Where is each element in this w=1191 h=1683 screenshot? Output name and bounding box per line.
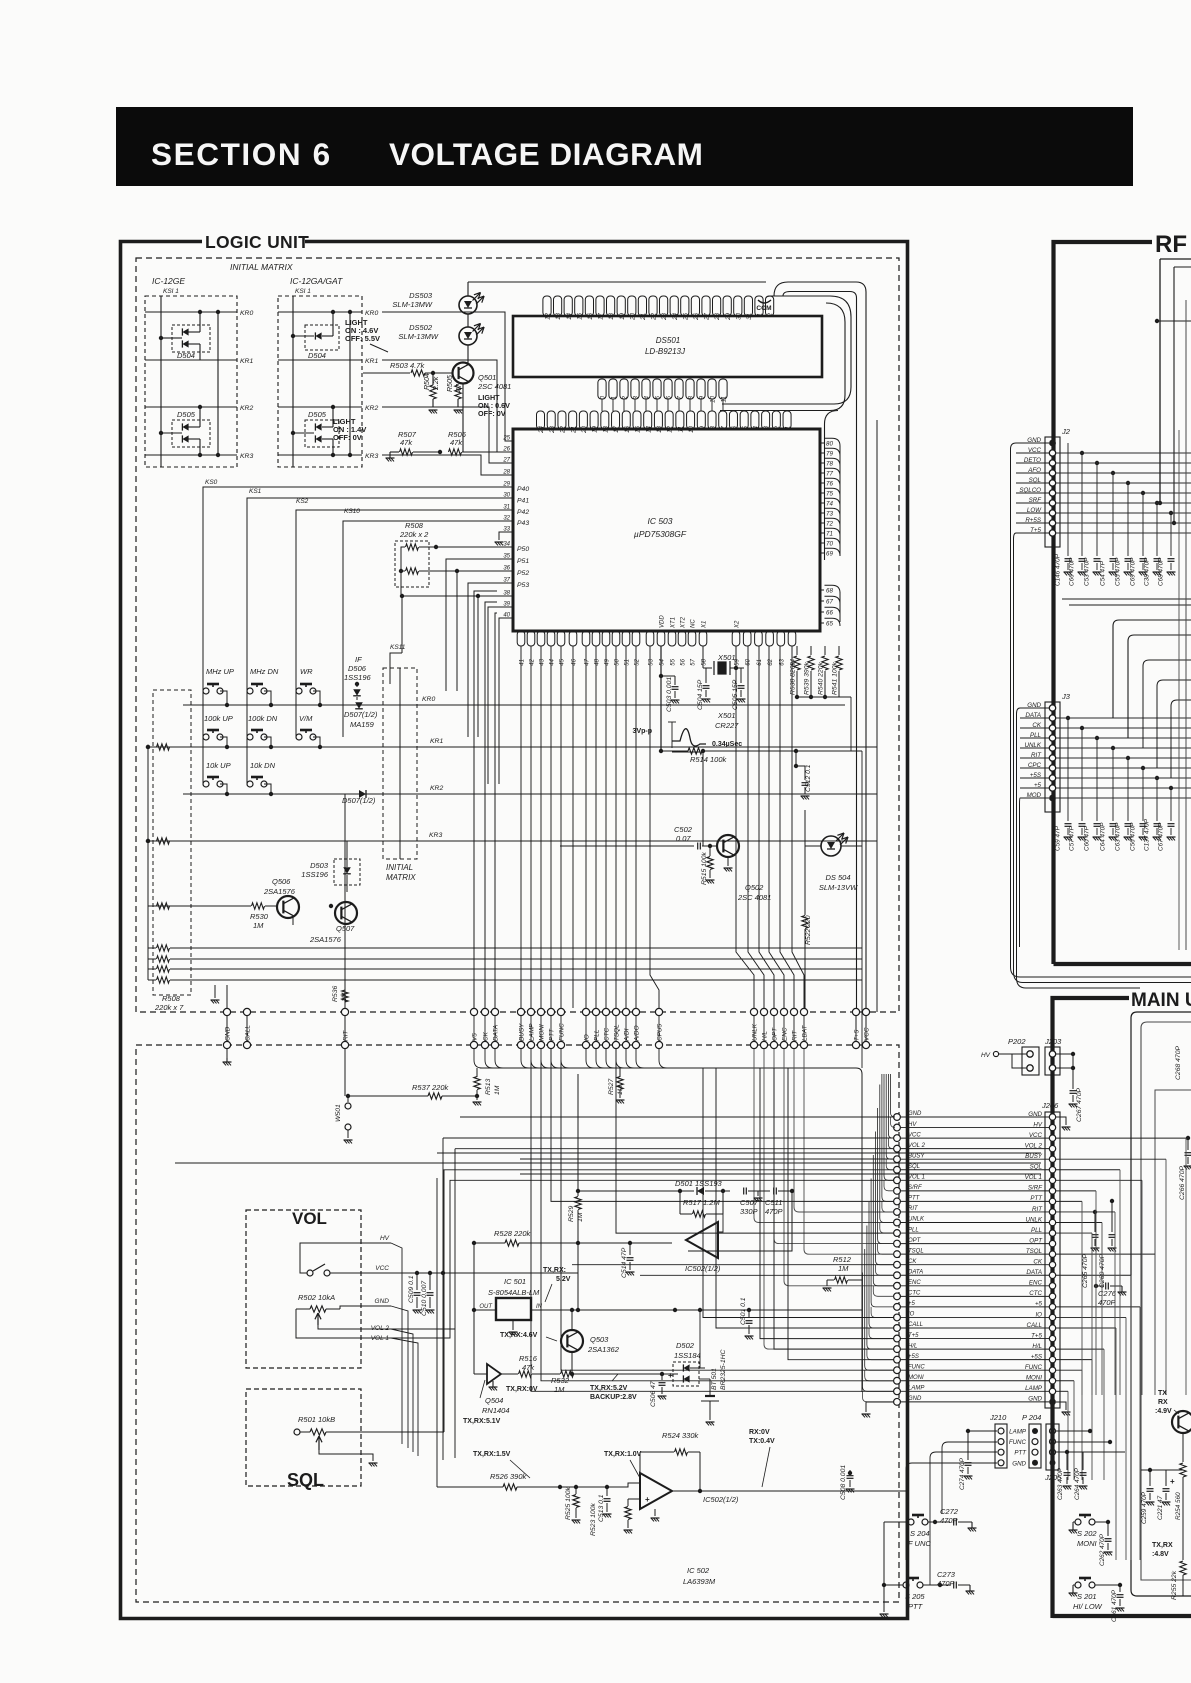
svg-text:FUNC: FUNC (908, 1364, 925, 1370)
svg-text:2: 2 (774, 425, 781, 430)
wire hooks IC503 pins 38-40 to V5 CK DATA columns (474, 591, 497, 1008)
svg-text:OFF: 5.5V: OFF: 5.5V (345, 334, 380, 343)
svg-text:INITIAL MATRIX: INITIAL MATRIX (230, 262, 293, 272)
svg-text:TX,RX:0V: TX,RX:0V (506, 1386, 538, 1393)
svg-text:76: 76 (826, 481, 833, 488)
battery BT501 BR2325-1HC (705, 1395, 715, 1397)
svg-text:69: 69 (826, 551, 833, 558)
svg-text:LA6393M: LA6393M (683, 1577, 716, 1586)
title bar SECTION 6 VOLTAGE DIAGRAM (116, 107, 1133, 186)
svg-text:KS2: KS2 (296, 498, 309, 505)
svg-text:KR0: KR0 (240, 310, 253, 317)
COM bracket (758, 300, 771, 303)
ground Q502 emitter (727, 857, 729, 866)
svg-text:NC: NC (691, 619, 697, 628)
svg-text:C265 470P: C265 470P (1082, 1254, 1089, 1288)
svg-text:2SA1362: 2SA1362 (587, 1345, 620, 1354)
svg-text:1: 1 (757, 313, 764, 316)
svg-text:X501: X501 (717, 711, 736, 720)
svg-text:220k x 2: 220k x 2 (399, 530, 429, 539)
svg-text:2SA1576: 2SA1576 (263, 887, 296, 896)
svg-text:V5: V5 (472, 1033, 479, 1041)
svg-text:R504: R504 (424, 373, 431, 390)
wire pin 34 P50 to R508 upper (436, 546, 513, 548)
microprocessor IC503 uPD75308GF (513, 429, 820, 631)
wires VOL rows to right (391, 1243, 402, 1444)
wire VCC row long (391, 1272, 578, 1274)
svg-text:P51: P51 (517, 558, 529, 565)
svg-text:R516: R516 (519, 1354, 538, 1363)
svg-text:22: 22 (651, 312, 658, 320)
svg-text:HV: HV (981, 1052, 991, 1059)
svg-text:PTT: PTT (908, 1602, 924, 1611)
wire hook fan rows to vertical bundle (891, 1074, 896, 1117)
svg-text:C64 470P: C64 470P (1100, 822, 1107, 851)
svg-text:HV: HV (380, 1235, 390, 1242)
svg-text:24: 24 (538, 425, 545, 433)
svg-text:10k DN: 10k DN (250, 761, 276, 770)
svg-text:77: 77 (826, 471, 833, 478)
svg-text:DS502: DS502 (409, 323, 433, 332)
svg-text:58: 58 (702, 658, 708, 665)
wire opamp2 output (672, 1490, 906, 1492)
svg-text:RN1404: RN1404 (482, 1406, 510, 1415)
LED DS504 SLM-13VW (821, 836, 841, 856)
wire T+5 H/L rows (760, 1068, 894, 1339)
svg-text:1SS196: 1SS196 (301, 870, 329, 879)
svg-text:+: + (668, 1371, 673, 1380)
svg-text:1: 1 (611, 396, 618, 399)
DS501 top pin tabs (543, 296, 551, 316)
wire KR0 matrix to pin 25 (382, 312, 513, 441)
svg-text:R514 100k: R514 100k (690, 755, 728, 764)
wire GND row top (460, 1116, 894, 1118)
svg-text:PLL: PLL (594, 1029, 601, 1041)
svg-text:13: 13 (656, 425, 663, 432)
capacitor C265 470P (1093, 1210, 1097, 1214)
svg-text:IC-12GA/GAT: IC-12GA/GAT (290, 276, 343, 286)
svg-text:MAIN U: MAIN U (1131, 990, 1191, 1011)
svg-text:C63 470P: C63 470P (1115, 822, 1122, 851)
svg-text:R539 390k: R539 390k (804, 662, 811, 695)
svg-text:1M: 1M (838, 1264, 849, 1273)
svg-text:CK: CK (483, 1031, 490, 1041)
svg-text:SLM-13MW: SLM-13MW (392, 300, 433, 309)
svg-text:P40: P40 (517, 486, 529, 493)
svg-text:50: 50 (615, 658, 621, 665)
svg-text:TX: TX (1158, 1390, 1167, 1397)
svg-text:F UNC: F UNC (908, 1539, 931, 1548)
vertical feed wires lower box (436, 1178, 438, 1487)
wire X2 to crystal (735, 646, 737, 668)
svg-text:220k x 7: 220k x 7 (154, 1003, 184, 1012)
RF interior nested corner wires to J3 caps (1113, 620, 1191, 718)
svg-text:R254 560: R254 560 (1175, 1492, 1182, 1520)
wire pin 37 P53 column (468, 583, 513, 737)
svg-text:KSI 1: KSI 1 (163, 288, 179, 295)
svg-text:D502: D502 (676, 1341, 695, 1350)
wires J210 left loop to switches (968, 1430, 997, 1432)
svg-text:D507(1/2): D507(1/2) (342, 796, 376, 805)
svg-text:23: 23 (549, 425, 556, 433)
J3 pin row wires extending right (1056, 717, 1191, 719)
wire Q506-Q507 (292, 917, 294, 925)
wire IO CALL rows (703, 1068, 894, 1318)
svg-text:21: 21 (570, 426, 577, 434)
svg-text:P52: P52 (517, 570, 529, 577)
svg-text:R536: R536 (332, 986, 339, 1002)
wire IN rail (577, 1243, 579, 1310)
svg-text:D507(1/2): D507(1/2) (344, 710, 378, 719)
svg-text:LAMP: LAMP (908, 1386, 924, 1392)
svg-text:R505: R505 (447, 375, 454, 392)
svg-text:C221 47: C221 47 (1157, 1495, 1164, 1520)
svg-text:47k: 47k (450, 438, 463, 447)
svg-text:MONI: MONI (908, 1375, 924, 1381)
wire bundle IC503 bottom pins 41-53 down to connector row (520, 646, 522, 1008)
svg-text:PTT: PTT (1014, 1450, 1027, 1457)
svg-text:48: 48 (595, 658, 601, 665)
wire row 1470 (1141, 1469, 1183, 1471)
wire C511 output loop (688, 1191, 792, 1251)
svg-text:HI/ LOW: HI/ LOW (1073, 1602, 1103, 1611)
svg-text:OFF: 0V: OFF: 0V (333, 433, 362, 442)
svg-text:R255 22k: R255 22k (1171, 1570, 1178, 1600)
svg-text:R523 100k: R523 100k (590, 1503, 597, 1536)
switch VOL (307, 1270, 313, 1276)
svg-text:C510 0.007: C510 0.007 (421, 1281, 428, 1316)
svg-text:RIT: RIT (908, 1206, 919, 1212)
wire Q503 emitter down (571, 1352, 573, 1374)
svg-text:RX: RX (1158, 1399, 1168, 1406)
wire pin 40 column (499, 618, 513, 784)
J2 bypass capacitors C146 C66 C53 C54 C55 C69 C38 C68 (1067, 443, 1069, 556)
svg-text::4.9V: :4.9V (1155, 1408, 1172, 1415)
svg-text:C137 470P: C137 470P (1144, 818, 1151, 851)
svg-text:7: 7 (677, 395, 684, 399)
svg-text:J203: J203 (1044, 1037, 1062, 1046)
svg-text:16: 16 (587, 312, 594, 319)
wire channel wrap around DS501 right side (722, 296, 851, 404)
svg-text:DS501: DS501 (656, 336, 680, 345)
svg-text:21: 21 (640, 313, 647, 321)
svg-text:CK: CK (908, 1259, 917, 1265)
ground symbol bottom left (214, 985, 216, 998)
svg-text:43: 43 (540, 658, 546, 665)
svg-text:100k DN: 100k DN (248, 714, 278, 723)
svg-text:LD-B9213J: LD-B9213J (645, 347, 686, 356)
wire rows bundle mid (616, 1049, 894, 1233)
svg-text:17: 17 (598, 312, 605, 319)
DS501 bottom pin tabs (598, 379, 606, 399)
wires above upper connector row (226, 985, 228, 1008)
capacitor C261 470P (1095, 1584, 1120, 1586)
svg-text:+: + (1170, 1477, 1175, 1486)
svg-text:H/L: H/L (908, 1343, 917, 1349)
svg-text:P42: P42 (517, 509, 529, 516)
svg-text:CALL: CALL (908, 1322, 923, 1328)
svg-text:20: 20 (581, 425, 588, 433)
svg-text:C268 470P: C268 470P (1175, 1046, 1182, 1080)
logic unit border (121, 242, 908, 1619)
svg-text:3: 3 (763, 425, 770, 429)
wire CK DATA rows (572, 1264, 894, 1266)
svg-text:KR0: KR0 (365, 310, 378, 317)
svg-text:C60 47P: C60 47P (1084, 825, 1091, 851)
svg-text:R515 100k: R515 100k (701, 852, 708, 885)
svg-text:VOL 2: VOL 2 (908, 1143, 926, 1149)
svg-text:78: 78 (826, 461, 833, 468)
svg-text:68: 68 (826, 588, 833, 595)
svg-text:C509 0.1: C509 0.1 (408, 1275, 415, 1303)
svg-text:X501: X501 (717, 653, 736, 662)
svg-text:µPD75308GF: µPD75308GF (634, 529, 687, 539)
diode pair D504 (IC-12GE) (172, 325, 210, 352)
svg-text:C507: C507 (740, 1198, 759, 1207)
capacitor C262 470P (1095, 1521, 1108, 1523)
svg-text:25: 25 (682, 312, 689, 320)
svg-text:UNLK: UNLK (752, 1023, 759, 1041)
svg-text:LOGIC UNIT: LOGIC UNIT (205, 232, 309, 252)
svg-text:CTC: CTC (908, 1291, 921, 1297)
svg-text:TX,RX:5.1V: TX,RX:5.1V (463, 1418, 501, 1425)
svg-text:WR: WR (300, 667, 313, 676)
lower row wires to right (191, 947, 862, 949)
svg-text:18: 18 (602, 425, 609, 432)
svg-text:MHz DN: MHz DN (250, 667, 279, 676)
resistor R522 220 (804, 846, 806, 915)
svg-text:19: 19 (619, 312, 626, 319)
diode D507(1/2) on KR2 (359, 790, 366, 798)
svg-text:0.07: 0.07 (676, 834, 691, 843)
svg-text:74: 74 (826, 501, 833, 508)
svg-text:MATRIX: MATRIX (386, 873, 416, 882)
svg-text:PTT: PTT (549, 1028, 556, 1041)
svg-text:R503 4.7k: R503 4.7k (390, 361, 425, 370)
svg-text:C54 47P: C54 47P (1100, 560, 1107, 586)
svg-text:20: 20 (629, 312, 636, 320)
wire bundle IC503 bottom pins 59-64 down to connector row (736, 646, 754, 1008)
svg-text:OFF: 0V: OFF: 0V (478, 409, 506, 418)
svg-text:330P: 330P (740, 1207, 758, 1216)
svg-text:57: 57 (691, 658, 697, 665)
svg-text:73: 73 (826, 511, 833, 518)
svg-text:VCC: VCC (908, 1132, 921, 1138)
svg-text:9: 9 (699, 425, 706, 429)
svg-text:RIT: RIT (792, 1030, 799, 1041)
svg-text:IC 502: IC 502 (687, 1566, 710, 1575)
svg-text:MONI: MONI (1077, 1539, 1097, 1548)
svg-text:2SC 4081: 2SC 4081 (737, 893, 771, 902)
resistor R515 100k (709, 846, 711, 856)
svg-text:26: 26 (693, 312, 700, 320)
svg-text:KR1: KR1 (240, 358, 253, 365)
svg-text:FUNC: FUNC (559, 1023, 566, 1041)
svg-text:P 204: P 204 (1022, 1413, 1041, 1422)
svg-text:TSQL: TSQL (614, 1024, 621, 1041)
svg-text:D503: D503 (310, 861, 329, 870)
svg-text:R513: R513 (485, 1079, 492, 1095)
svg-text:MA159: MA159 (350, 720, 375, 729)
column wire buttons col1 (202, 691, 204, 784)
svg-text:XT2: XT2 (681, 616, 687, 629)
svg-text:1SS184: 1SS184 (674, 1351, 701, 1360)
svg-text:KR3: KR3 (365, 453, 378, 460)
IC503 bottom pin tabs 41-64 (517, 631, 525, 646)
svg-text:42: 42 (530, 658, 536, 665)
svg-text:+: + (645, 1495, 650, 1504)
svg-text:H/L: H/L (762, 1031, 769, 1041)
svg-text:MONI: MONI (539, 1024, 546, 1041)
svg-text:4: 4 (644, 395, 651, 399)
svg-text:LBAT: LBAT (802, 1024, 809, 1041)
capacitor C504 15P (705, 668, 707, 683)
svg-text:IO: IO (908, 1312, 915, 1318)
svg-text:470P: 470P (1098, 1298, 1116, 1307)
svg-text:VDD: VDD (660, 615, 666, 628)
capacitor C260 470P (1110, 1199, 1114, 1203)
RF interior rows 599 605 (1062, 598, 1191, 600)
SQL control dashed box (246, 1389, 361, 1486)
svg-text:INITIAL: INITIAL (386, 863, 413, 872)
wire pin 39 column (488, 607, 513, 784)
svg-text:12: 12 (667, 425, 674, 432)
wire R528 row to opamp (578, 1242, 672, 1244)
svg-text:71: 71 (826, 531, 833, 538)
svg-text:2.2k: 2.2k (433, 376, 440, 391)
svg-text:GND: GND (375, 1298, 390, 1305)
wire DS504 anode column (804, 810, 806, 846)
svg-text:30: 30 (735, 312, 742, 319)
RF interior nested wire corners top (1160, 258, 1191, 260)
svg-text:31: 31 (746, 313, 753, 320)
svg-text:55: 55 (671, 658, 677, 665)
svg-text:KR2: KR2 (430, 785, 443, 792)
pushbutton S201 HI/LOW (1075, 1582, 1081, 1588)
keyboard row wire KR0 (220, 691, 227, 705)
svg-text:1M: 1M (554, 1385, 565, 1394)
svg-text:S 201: S 201 (1077, 1592, 1097, 1601)
keyboard row wire KR1 (220, 737, 227, 747)
wire R506 to pin 26 (497, 441, 513, 452)
svg-text:TX,RX: TX,RX (1152, 1542, 1173, 1549)
svg-text:4: 4 (753, 425, 760, 429)
svg-text:SLM-13MW: SLM-13MW (398, 332, 439, 341)
svg-text:0: 0 (600, 395, 607, 399)
svg-text:C146 470P: C146 470P (1055, 553, 1062, 586)
buffer Q504 RN1404 (487, 1364, 501, 1384)
connector row lower dashed-edge pins (223, 1041, 230, 1048)
svg-text:OPT: OPT (772, 1027, 779, 1041)
svg-text:10: 10 (688, 425, 695, 432)
svg-text:C506 47: C506 47 (650, 1381, 657, 1407)
svg-text:R522 220: R522 220 (805, 915, 812, 945)
svg-text:VCC: VCC (864, 1027, 871, 1041)
svg-text:C59 47P: C59 47P (1055, 825, 1062, 851)
svg-text:C502: C502 (674, 825, 693, 834)
svg-text:D505: D505 (308, 410, 327, 419)
wire R501 wiper to ground (319, 1450, 373, 1461)
svg-text:C260 470P: C260 470P (1099, 1254, 1106, 1288)
capacitor C267 470P (1056, 1053, 1073, 1055)
svg-text:R512: R512 (833, 1255, 852, 1264)
resistor R514 100k (661, 750, 688, 752)
svg-text:IC 503: IC 503 (647, 516, 672, 526)
svg-text:46: 46 (572, 658, 578, 665)
svg-text:100k UP: 100k UP (204, 714, 233, 723)
svg-text:1: 1 (785, 426, 792, 429)
svg-text:47k: 47k (400, 438, 413, 447)
svg-text:P41: P41 (517, 497, 529, 504)
resistors R538 820k R539 390k R540 220k R541 100k (796, 646, 798, 655)
bus wires under RF to main unit (1011, 930, 1191, 977)
svg-text:VCC: VCC (375, 1265, 389, 1272)
svg-text:S-8054ALB-LM: S-8054ALB-LM (488, 1288, 540, 1297)
svg-text:S 204: S 204 (910, 1529, 930, 1538)
wire pin 33 to ground (499, 532, 513, 540)
svg-text:6: 6 (731, 425, 738, 429)
svg-text:66: 66 (826, 610, 833, 617)
transistor Q502 2SC4081 (717, 835, 739, 857)
left resistor ladder R508 220k x 7 (153, 690, 191, 995)
J3 left comb wires (1020, 707, 1049, 709)
svg-text:15: 15 (576, 312, 583, 319)
svg-text:D505: D505 (177, 410, 196, 419)
svg-text:23: 23 (661, 312, 668, 320)
pushbutton S205 PTT (903, 1582, 909, 1588)
svg-text:2SA1576: 2SA1576 (309, 935, 342, 944)
svg-text:3Vp-p: 3Vp-p (633, 728, 652, 735)
main unit border (1053, 998, 1130, 1618)
svg-text:Q507: Q507 (336, 924, 355, 933)
svg-text:47: 47 (585, 658, 591, 665)
wire VOL2 row (391, 1328, 455, 1330)
transistor Q503 2SA1362 (561, 1330, 583, 1352)
svg-text:SLM-13VW: SLM-13VW (819, 883, 858, 892)
svg-text:C57 47P: C57 47P (1069, 825, 1076, 851)
ground at J206 bottom (1056, 1402, 1066, 1410)
RF interior vertical wires right (1185, 300, 1187, 950)
wires J205 to switches right (1056, 1430, 1090, 1432)
svg-text:C53 470P: C53 470P (1084, 557, 1091, 586)
svg-text:ENC: ENC (908, 1280, 921, 1286)
svg-text:J210: J210 (989, 1413, 1007, 1422)
wire channel DS501 top pins to right bus (774, 282, 866, 1008)
svg-text:SQL: SQL (908, 1164, 920, 1170)
svg-text:KR2: KR2 (240, 405, 253, 412)
svg-text:IC 501: IC 501 (504, 1277, 526, 1286)
svg-text:C273: C273 (937, 1570, 956, 1579)
svg-text:IN: IN (536, 1304, 543, 1310)
svg-text:R508: R508 (162, 994, 181, 1003)
svg-text:IC502(1/2): IC502(1/2) (703, 1495, 739, 1504)
transistor Q507 2SA1576 (335, 902, 357, 924)
svg-text:CALL: CALL (245, 1025, 252, 1041)
op-amp IC502(1/2) lower (640, 1473, 672, 1509)
svg-text:X2: X2 (735, 620, 741, 629)
svg-text:C69 470P: C69 470P (1130, 557, 1137, 586)
svg-text:14: 14 (566, 312, 573, 319)
svg-text:TX:0.4V: TX:0.4V (749, 1438, 775, 1445)
wire pin 36 P52 to R508 lower (429, 570, 513, 572)
svg-text:67: 67 (826, 599, 833, 606)
svg-text:R527: R527 (608, 1079, 615, 1095)
svg-text:T+5: T+5 (854, 1029, 861, 1041)
svg-text:C267 470P: C267 470P (1076, 1088, 1083, 1122)
svg-text:C276: C276 (1098, 1289, 1117, 1298)
svg-text:41: 41 (520, 659, 526, 666)
svg-text:47: 47 (456, 383, 463, 392)
